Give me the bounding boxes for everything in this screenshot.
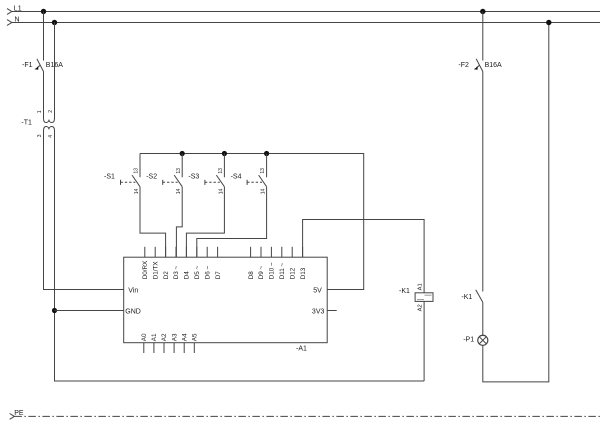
svg-text:B16A: B16A bbox=[485, 62, 502, 69]
svg-text:13: 13 bbox=[176, 168, 182, 174]
svg-text:D4: D4 bbox=[184, 271, 191, 280]
svg-text:14: 14 bbox=[261, 189, 267, 195]
svg-text:A4: A4 bbox=[181, 333, 188, 341]
svg-text:13: 13 bbox=[260, 168, 266, 174]
svg-text:3: 3 bbox=[37, 134, 43, 137]
svg-text:-T1: -T1 bbox=[21, 120, 32, 127]
svg-text:D7: D7 bbox=[215, 271, 222, 280]
svg-text:D9 ~: D9 ~ bbox=[258, 266, 265, 280]
svg-text:D6 ~: D6 ~ bbox=[204, 266, 211, 280]
svg-text:D11 ~: D11 ~ bbox=[279, 262, 286, 279]
svg-text:13: 13 bbox=[134, 168, 140, 174]
svg-text:-K1: -K1 bbox=[399, 288, 410, 295]
svg-text:A2: A2 bbox=[417, 304, 423, 311]
svg-text:-S1: -S1 bbox=[104, 173, 115, 180]
svg-text:A1: A1 bbox=[417, 283, 423, 290]
svg-text:-S3: -S3 bbox=[188, 173, 199, 180]
svg-text:D13: D13 bbox=[300, 267, 307, 279]
svg-text:D0/RX: D0/RX bbox=[142, 260, 149, 279]
svg-text:-P1: -P1 bbox=[463, 337, 474, 344]
svg-text:D2: D2 bbox=[163, 271, 170, 280]
svg-text:A5: A5 bbox=[192, 333, 199, 341]
svg-text:D8: D8 bbox=[248, 271, 255, 280]
svg-text:D5 ~: D5 ~ bbox=[194, 266, 201, 280]
svg-text:13: 13 bbox=[218, 168, 224, 174]
svg-text:4: 4 bbox=[48, 135, 54, 138]
svg-text:-S2: -S2 bbox=[146, 173, 157, 180]
svg-text:-A1: -A1 bbox=[296, 346, 307, 353]
svg-text:A0: A0 bbox=[141, 333, 148, 341]
svg-text:14: 14 bbox=[134, 189, 140, 195]
svg-text:L1: L1 bbox=[14, 6, 22, 13]
svg-text:A3: A3 bbox=[171, 333, 178, 341]
svg-text:14: 14 bbox=[218, 189, 224, 195]
svg-text:D3 ~: D3 ~ bbox=[173, 266, 180, 280]
svg-text:D1/TX: D1/TX bbox=[152, 261, 159, 280]
svg-text:-F1: -F1 bbox=[22, 62, 33, 69]
svg-text:N: N bbox=[15, 17, 20, 24]
svg-text:14: 14 bbox=[176, 189, 182, 195]
svg-text:A1: A1 bbox=[151, 333, 158, 341]
svg-text:5V: 5V bbox=[313, 287, 322, 294]
svg-text:2: 2 bbox=[48, 110, 54, 113]
svg-text:-F2: -F2 bbox=[458, 62, 469, 69]
svg-text:D10 ~: D10 ~ bbox=[269, 262, 276, 279]
svg-text:-K1: -K1 bbox=[461, 294, 472, 301]
svg-text:D12: D12 bbox=[289, 267, 296, 279]
svg-text:A2: A2 bbox=[161, 333, 168, 341]
svg-text:GND: GND bbox=[125, 309, 141, 316]
svg-text:1: 1 bbox=[37, 110, 43, 113]
svg-text:3V3: 3V3 bbox=[312, 309, 325, 316]
svg-text:-S4: -S4 bbox=[231, 173, 242, 180]
svg-text:Vin: Vin bbox=[128, 287, 138, 294]
svg-text:PE: PE bbox=[14, 410, 24, 417]
svg-text:B16A: B16A bbox=[46, 62, 63, 69]
